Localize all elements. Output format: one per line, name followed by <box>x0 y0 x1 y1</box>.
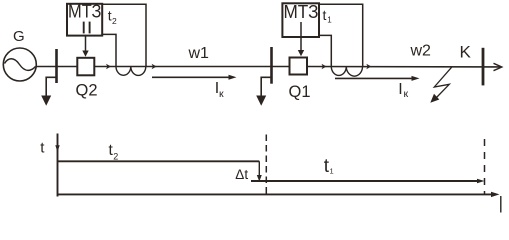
svg-text:w2: w2 <box>410 43 432 60</box>
relay MT3 right box <box>282 3 319 37</box>
svg-text:Q1: Q1 <box>289 83 311 101</box>
busbar right <box>482 48 485 86</box>
svg-text:Q2: Q2 <box>76 82 98 100</box>
svg-text:МТЗ: МТЗ <box>68 1 102 22</box>
time axis t <box>57 134 59 197</box>
svg-text:Δt: Δt <box>235 167 248 182</box>
t1 time line <box>251 180 478 182</box>
busbar middle <box>270 47 273 84</box>
fault lightning bolt <box>434 67 452 98</box>
svg-text:к: к <box>404 88 409 100</box>
svg-text:G: G <box>13 28 25 45</box>
breaker Q2 <box>77 58 94 76</box>
busbar left <box>55 49 58 83</box>
right edge stub <box>500 196 502 213</box>
svg-text:K: K <box>460 42 472 61</box>
flow arrow 3 <box>322 64 327 70</box>
CT1 outer connection <box>102 4 146 66</box>
load tap left <box>46 77 56 96</box>
wire generator to Q2 <box>36 66 76 68</box>
current transformer CT2 <box>331 67 362 77</box>
trip arrow MT3 to Q1 <box>300 22 302 51</box>
axis tick mark <box>55 145 59 152</box>
load tap middle <box>261 77 271 96</box>
wire Q1 to end <box>307 66 502 68</box>
trip arrow MT3 to Q2 <box>85 36 87 52</box>
current element symbol || <box>84 22 90 34</box>
flow arrow 1 <box>106 64 111 70</box>
svg-text:к: к <box>219 88 224 100</box>
svg-text:1: 1 <box>327 16 332 25</box>
delta t arrow <box>258 161 260 176</box>
t2 time line <box>58 160 260 162</box>
wire end arrow <box>494 63 502 70</box>
generator G <box>3 48 36 81</box>
relay MT3 left box <box>67 4 102 36</box>
dashed line 2 <box>484 139 486 195</box>
svg-text:1: 1 <box>330 167 334 176</box>
wire Q2 to Q1 <box>94 66 288 68</box>
current arrow Ik w2 <box>335 77 413 79</box>
CT1 inner connection <box>102 34 116 66</box>
breaker Q1 <box>290 58 308 75</box>
svg-text:w1: w1 <box>188 45 210 62</box>
svg-text:МТЗ: МТЗ <box>284 1 319 22</box>
svg-text:t: t <box>323 7 327 23</box>
current arrow Ik w1 <box>152 76 230 78</box>
current transformer CT1 <box>116 67 146 76</box>
load arrow left <box>41 96 51 106</box>
svg-text:2: 2 <box>113 152 118 162</box>
dashed line 1 <box>265 135 267 194</box>
bottom time line <box>58 193 493 195</box>
CT2 outer connection <box>319 4 363 66</box>
svg-text:I: I <box>398 81 402 98</box>
load arrow middle <box>256 96 266 106</box>
CT2 inner connection <box>319 35 331 66</box>
flow arrow 4 <box>366 64 371 70</box>
flow arrow 2 <box>152 64 157 70</box>
svg-text:2: 2 <box>112 16 117 26</box>
